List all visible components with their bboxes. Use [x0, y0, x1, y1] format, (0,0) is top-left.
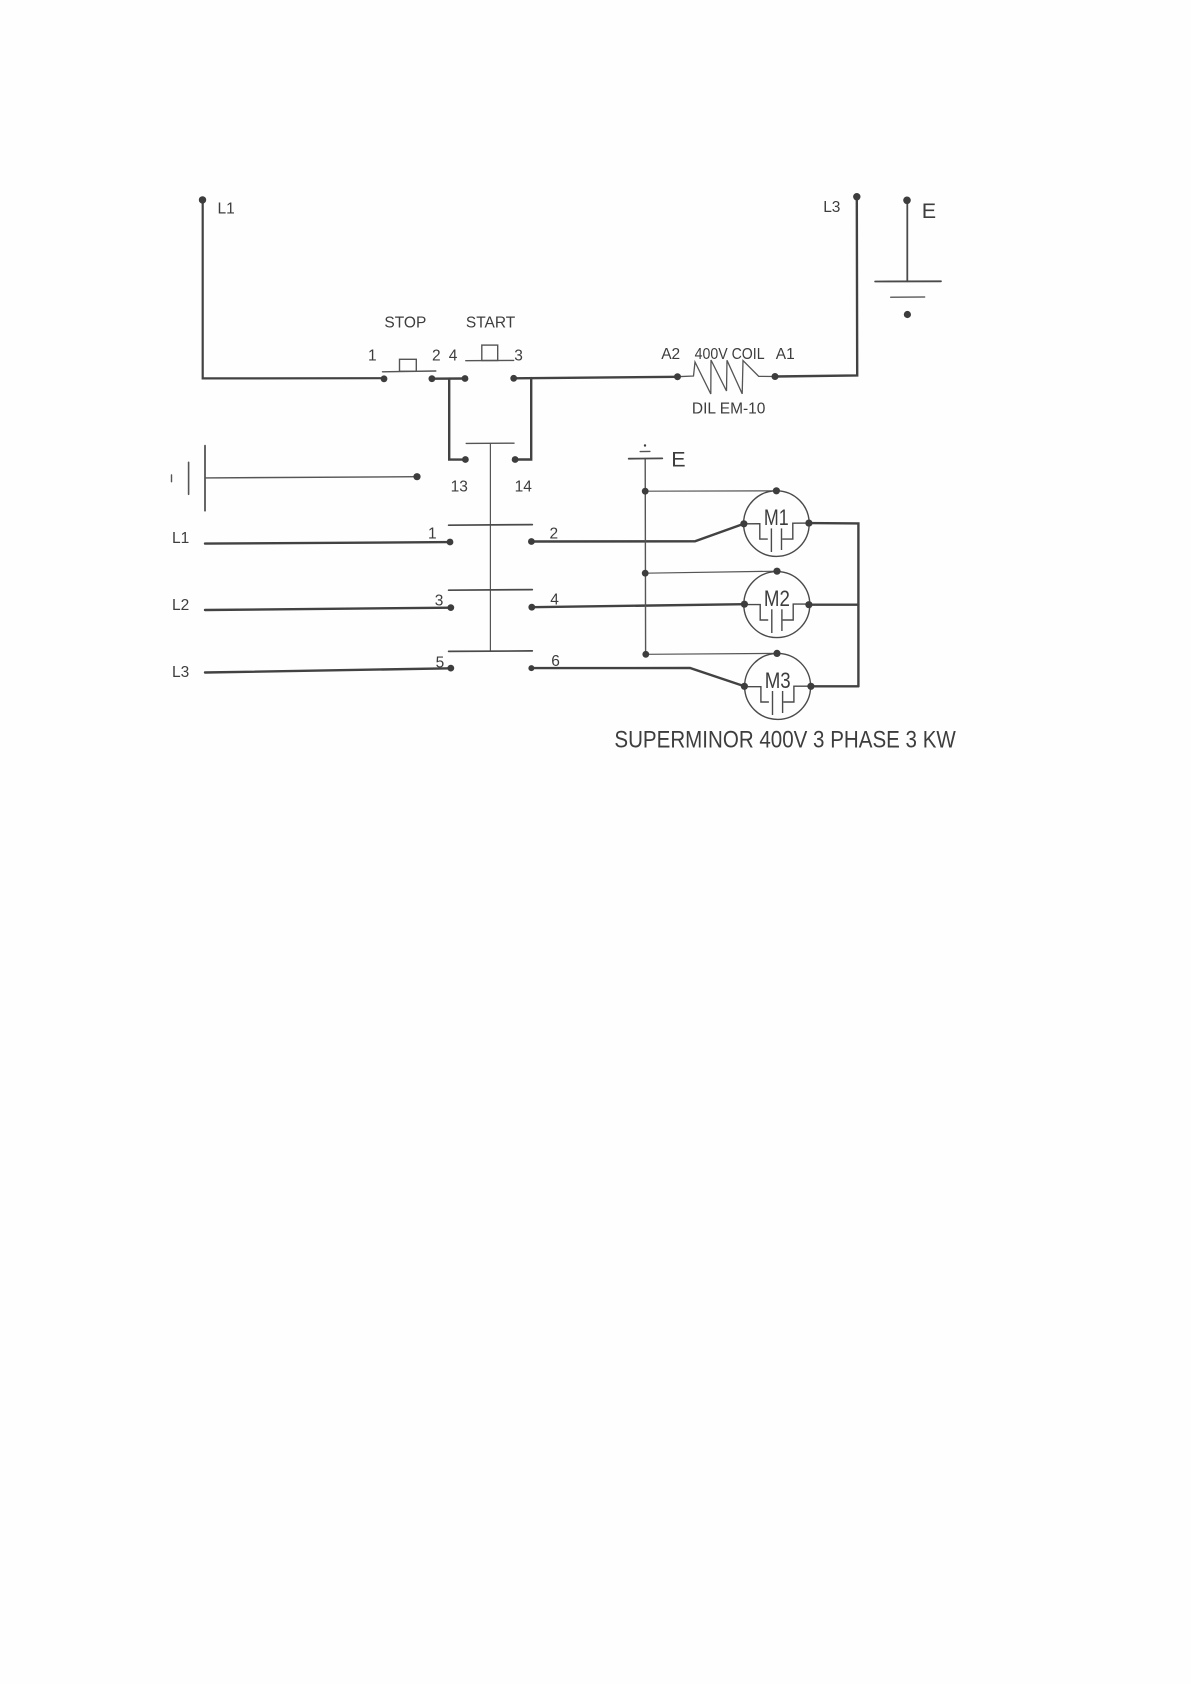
wire supply cell to dot	[205, 477, 417, 478]
svg-text:E: E	[922, 199, 936, 223]
svg-text:L3: L3	[823, 199, 840, 216]
wire L1 feeder	[205, 542, 450, 544]
earth mid speck	[644, 444, 646, 446]
svg-text:DIL EM-10: DIL EM-10	[692, 401, 766, 418]
svg-text:START: START	[466, 315, 516, 332]
motor M1 internal symbol	[744, 524, 768, 539]
svg-text:4: 4	[449, 347, 458, 364]
svg-text:L3: L3	[172, 664, 189, 681]
contactor main bar 1-2	[449, 524, 533, 527]
motor M2 left terminal dot	[741, 601, 748, 608]
svg-text:2: 2	[550, 526, 559, 543]
wire L1 drop to stop	[203, 200, 384, 378]
contact terminal dot 2	[528, 538, 535, 545]
motor M3 internal symbol	[744, 687, 769, 702]
contactor main bar 5-6	[449, 650, 533, 653]
svg-text:5: 5	[436, 655, 445, 672]
wire contact2 to M1	[531, 524, 744, 542]
svg-text:A1: A1	[776, 346, 795, 363]
svg-text:3: 3	[514, 347, 523, 364]
contact terminal dot 6	[528, 665, 534, 671]
wire contact4 to M2	[532, 604, 745, 607]
svg-text:2: 2	[432, 347, 441, 364]
svg-text:SUPERMINOR 400V 3 PHASE 3 KW: SUPERMINOR 400V 3 PHASE 3 KW	[614, 727, 956, 754]
motor M2 top terminal dot	[773, 568, 780, 575]
motor M1 top terminal dot	[773, 487, 780, 494]
wire stop 2 to start 4	[432, 377, 465, 380]
junction dot pin14 aux	[512, 456, 519, 463]
pushbutton STOP actuator	[400, 359, 417, 371]
wire L2 feeder	[205, 608, 451, 610]
svg-text:14: 14	[515, 478, 533, 495]
motor M3 left terminal dot	[741, 683, 748, 690]
wire M2 to star bus	[809, 604, 859, 606]
contactor aux contact 13-14 bar	[466, 442, 514, 444]
svg-text:L1: L1	[172, 530, 189, 547]
junction dot pin3 START	[510, 375, 517, 382]
motor M3 circle	[745, 653, 811, 719]
node L3 supply dot	[853, 193, 860, 200]
svg-text:L1: L1	[218, 201, 235, 218]
motor M1 left terminal dot	[740, 520, 747, 527]
wire start 3 to coil A2	[514, 377, 678, 379]
contact terminal dot 3	[447, 604, 454, 611]
wire M3 to star bus	[811, 685, 859, 687]
svg-text:L2: L2	[172, 597, 189, 614]
svg-text:3: 3	[435, 592, 444, 609]
earth line junction dot 1	[642, 488, 649, 495]
node L1 supply dot	[199, 196, 206, 203]
svg-text:STOP: STOP	[384, 315, 426, 332]
motor M3 top terminal dot	[773, 650, 780, 657]
motor M3 right terminal dot	[807, 683, 814, 690]
pushbutton START contact bar	[466, 359, 514, 361]
junction dot pin13 aux	[462, 456, 469, 463]
junction dot A2	[674, 373, 681, 380]
coil K1 zigzag DIL EM-10	[678, 360, 776, 394]
motor M2 right terminal dot	[805, 601, 812, 608]
motor M2 circle	[744, 572, 810, 638]
wire contact6 to M3	[531, 668, 744, 686]
junction dot pin2 STOP	[429, 375, 436, 382]
wire earth to M3 top	[646, 652, 777, 655]
earth top dot upper	[903, 197, 911, 205]
pushbutton START actuator	[482, 345, 498, 360]
wire branch to aux 14	[517, 378, 532, 459]
contactor main bar 3-4	[449, 589, 533, 592]
earth E mid symbol bars	[640, 450, 650, 452]
earth line junction dot 2	[642, 570, 649, 577]
contact terminal dot 1	[447, 539, 454, 546]
pushbutton STOP contact bar	[383, 370, 436, 373]
svg-text:400V COIL: 400V COIL	[695, 346, 765, 363]
svg-text:M3: M3	[765, 668, 791, 693]
wire earth to M1 top	[645, 490, 776, 492]
wire coil A1 to L3	[775, 197, 857, 377]
junction dot A1	[772, 373, 779, 380]
earth line junction dot 3	[642, 651, 649, 658]
junction dot pin1 STOP	[381, 375, 388, 382]
svg-text:A2: A2	[661, 346, 680, 363]
motor M2 internal symbol	[744, 605, 768, 620]
earth E mid vertical	[644, 459, 646, 655]
svg-text:6: 6	[551, 653, 560, 670]
wire M1 to star bus	[809, 523, 859, 686]
wire branch to aux 13	[449, 379, 464, 460]
contactor shaft	[489, 443, 491, 651]
svg-text:M2: M2	[764, 586, 790, 611]
svg-text:M1: M1	[764, 505, 789, 530]
junction dot pin4 START	[462, 375, 469, 382]
supply wire end dot	[413, 473, 420, 480]
contact terminal dot 5	[447, 665, 454, 672]
wire earth to M2 top	[645, 571, 777, 573]
svg-text:1: 1	[368, 347, 377, 364]
motor M1 right terminal dot	[805, 520, 812, 527]
earth E top-right symbol	[906, 202, 908, 281]
earth top dot lower	[904, 311, 911, 318]
wire L3 feeder	[205, 668, 451, 672]
svg-text:13: 13	[451, 478, 468, 495]
contact terminal dot 4	[528, 604, 535, 611]
supply cell symbol	[171, 475, 173, 482]
svg-text:1: 1	[428, 525, 437, 542]
motor M1 circle	[744, 491, 810, 557]
svg-text:4: 4	[550, 592, 559, 609]
svg-text:E: E	[671, 447, 685, 471]
